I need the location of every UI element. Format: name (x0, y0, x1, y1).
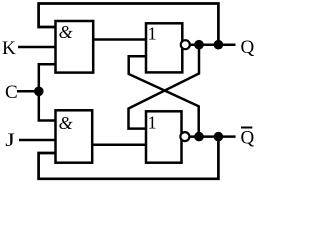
svg-text:K: K (2, 38, 16, 59)
wire bottom NOR output to Qbar (182, 135, 236, 138)
wire cross-couple A (Qbar node up to top NOR input 2) (129, 56, 199, 136)
or-gate bottom NOR (146, 111, 182, 162)
wire K input (18, 46, 56, 49)
bubble top NOR output (181, 40, 190, 49)
wire J input (19, 139, 56, 142)
node C junction dot (34, 87, 44, 97)
wire top AND output to top NOR input 1 (93, 38, 146, 41)
and-gate top (K gate) (56, 21, 94, 73)
wire top feedback (Q to top AND input 1) (39, 4, 219, 45)
wire cross-couple B (Q node down to bottom NOR input 1) (129, 45, 200, 129)
svg-text:1: 1 (148, 112, 157, 132)
wire bottom AND output to bottom NOR input 2 (92, 143, 146, 146)
wire bottom feedback (Qbar to bottom AND input 3) (39, 137, 219, 179)
svg-text:C: C (5, 82, 18, 103)
wire C input (17, 90, 39, 93)
svg-text:&: & (59, 113, 73, 133)
svg-text:Q: Q (241, 37, 255, 58)
or-gate top NOR (146, 23, 182, 72)
node Qbar line dot 1 (194, 132, 204, 142)
wire top NOR output to Q (182, 43, 236, 46)
wire C riser up to top AND input 3 (39, 64, 56, 91)
node Q line dot 1 (194, 40, 204, 50)
svg-text:&: & (59, 22, 73, 42)
svg-text:J: J (5, 129, 15, 151)
and-gate bottom (J gate) (56, 110, 93, 162)
node Qbar line dot 2 (214, 132, 224, 142)
wire C riser down to bottom AND input 1 (39, 91, 56, 120)
label Qbar overbar (241, 127, 252, 129)
svg-text:Q: Q (241, 128, 255, 149)
node Q line dot 2 (214, 40, 224, 50)
svg-text:1: 1 (148, 24, 157, 44)
bubble bottom NOR output (180, 132, 189, 141)
